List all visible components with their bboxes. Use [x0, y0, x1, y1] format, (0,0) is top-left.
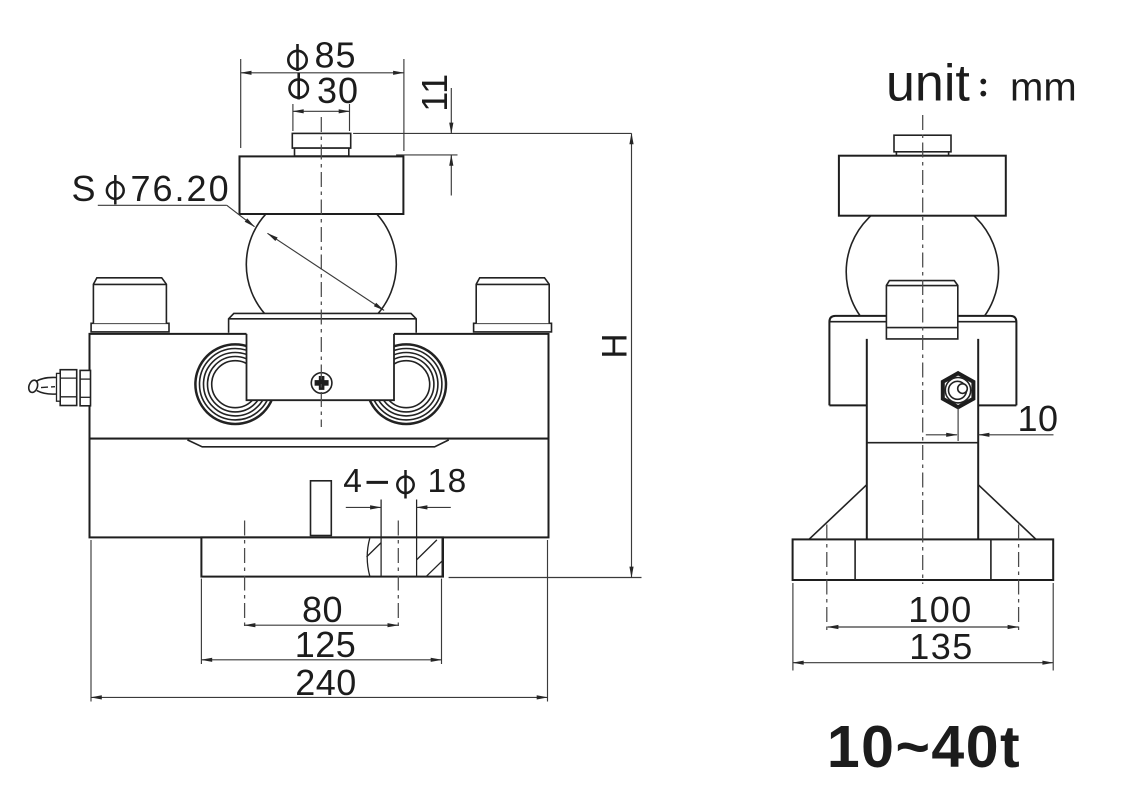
svg-text:11: 11 [414, 73, 455, 111]
svg-text:H: H [595, 333, 634, 358]
svg-text:S: S [72, 168, 96, 209]
svg-text:240: 240 [295, 662, 357, 703]
svg-text:135: 135 [909, 626, 974, 667]
svg-text:30: 30 [317, 70, 359, 111]
svg-text:mm: mm [1010, 66, 1077, 110]
svg-text:125: 125 [295, 624, 357, 665]
svg-text:10: 10 [1018, 398, 1059, 439]
svg-text:unit: unit [886, 55, 970, 113]
svg-text:10~40t: 10~40t [827, 714, 1021, 780]
svg-text:18: 18 [428, 463, 468, 500]
svg-text:4: 4 [343, 463, 362, 500]
svg-text:100: 100 [908, 589, 973, 630]
svg-text:76.20: 76.20 [131, 168, 231, 209]
